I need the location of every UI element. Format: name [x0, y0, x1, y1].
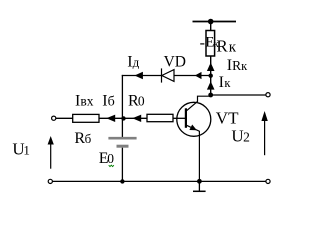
svg-text:Iд: Iд	[127, 53, 139, 70]
svg-text:IRк: IRк	[227, 57, 248, 74]
wire stub rail to Rk	[210, 22, 212, 31]
wire Rk bottom to node J2	[210, 56, 212, 76]
svg-text:Iвх: Iвх	[75, 93, 94, 110]
terminal output top (open circle)	[266, 93, 270, 97]
power rail top	[193, 21, 237, 23]
transistor emitter lead	[186, 125, 199, 181]
resistor Rb box	[73, 114, 99, 122]
svg-text:E0: E0	[99, 150, 115, 167]
svg-text:R0: R0	[128, 93, 145, 110]
svg-text:Iк: Iк	[219, 74, 232, 91]
spellcheck squiggle under 0	[109, 165, 114, 166]
wire Rb to base node	[99, 117, 122, 119]
current arrow Id (left)	[135, 72, 143, 80]
transistor collector lead	[186, 96, 210, 111]
node base junction dot	[121, 116, 125, 120]
ground bar	[193, 190, 206, 192]
ground stub	[198, 181, 200, 191]
terminal input left (open circle)	[52, 116, 56, 120]
bottom rail	[52, 180, 266, 182]
diode VD triangle	[162, 70, 174, 82]
wire J2 to collector node	[210, 76, 212, 95]
node J2 junction dot	[209, 74, 213, 78]
wire battery to bottom rail	[121, 148, 123, 182]
voltage arrow U2	[264, 115, 266, 155]
resistor RK box	[206, 31, 215, 57]
wire vertical from diode corner down to base node	[121, 75, 123, 119]
svg-text:-: -	[200, 34, 205, 51]
wire diode branch horizontal	[122, 75, 211, 77]
voltage arrow U1	[50, 140, 52, 169]
resistor R0 box	[147, 114, 173, 121]
svg-text:U2: U2	[231, 127, 249, 146]
current arrow Ivx (left)	[106, 115, 115, 122]
wire input terminal to Rb	[56, 117, 73, 119]
wire collector node to output terminal	[211, 94, 266, 96]
svg-text:Iб: Iб	[102, 93, 114, 110]
svg-text:U1: U1	[12, 140, 29, 159]
transistor VT base bar	[185, 108, 187, 128]
battery E0 long plate	[108, 137, 136, 140]
current arrow IRk (up)	[207, 63, 215, 72]
current arrow into J2 (left)	[195, 72, 202, 79]
junction dot battery-rail	[120, 179, 124, 183]
junction dot top rail	[208, 19, 214, 25]
transistor VT circle	[177, 102, 211, 136]
transistor emitter arrow (npn)	[189, 125, 196, 131]
svg-text:VD: VD	[164, 53, 186, 70]
wire R0 to base	[173, 117, 186, 119]
current arrow Ib (left)	[132, 115, 141, 122]
node J3 collector junction dot	[208, 93, 213, 98]
wire base node to R0	[124, 117, 148, 119]
svg-text:Rб: Rб	[74, 130, 91, 147]
battery E0 short plate	[117, 145, 129, 148]
svg-text:VT: VT	[216, 109, 239, 128]
terminal bottom left (open circle)	[48, 179, 52, 183]
terminal bottom right (open circle)	[266, 179, 270, 183]
diode VD cathode bar	[161, 68, 163, 82]
wire base node down to battery	[121, 118, 123, 137]
svg-text:Rк: Rк	[216, 37, 236, 56]
junction dot emitter-rail	[197, 179, 202, 184]
current arrow Ik (up)	[207, 81, 215, 89]
